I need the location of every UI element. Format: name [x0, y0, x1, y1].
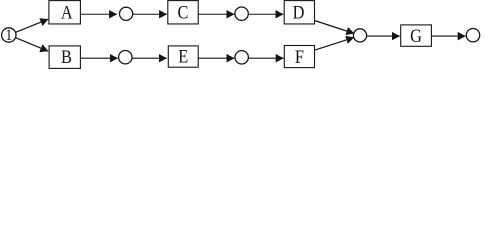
node after E (circle)	[235, 51, 248, 64]
wire n5->F	[249, 57, 284, 59]
wire F->merge	[315, 37, 355, 50]
svg-text:D: D	[293, 2, 305, 23]
node after A (circle)	[120, 7, 133, 20]
box D	[284, 1, 314, 24]
box G	[401, 25, 432, 47]
box E	[168, 45, 198, 67]
svg-text:C: C	[178, 2, 189, 23]
wire n2->C	[133, 13, 167, 15]
svg-text:A: A	[61, 2, 73, 23]
wire 1->B	[16, 38, 49, 52]
wire B->n4	[80, 57, 117, 59]
node 1 (start circle)	[2, 27, 16, 44]
wire 1->A	[16, 19, 49, 32]
merge node (circle)	[353, 29, 366, 42]
end node (circle)	[466, 29, 479, 42]
node after B (circle)	[119, 51, 132, 64]
box A	[49, 1, 81, 24]
wire merge->G	[367, 35, 400, 37]
box F	[284, 46, 314, 68]
wire C->n3	[198, 13, 234, 15]
box B	[49, 46, 80, 69]
wire E->n5	[198, 57, 234, 59]
svg-text:G: G	[410, 25, 422, 46]
svg-text:1: 1	[5, 27, 12, 44]
wire G->end	[431, 35, 465, 37]
svg-text:F: F	[295, 46, 304, 67]
wire A->n2	[80, 13, 117, 15]
wire D->merge	[315, 21, 355, 34]
svg-text:B: B	[61, 46, 72, 67]
wire n3->D	[248, 13, 283, 15]
svg-text:E: E	[178, 45, 188, 66]
wire n4->E	[132, 57, 167, 59]
node after C (circle)	[235, 7, 248, 20]
box C	[168, 1, 198, 24]
